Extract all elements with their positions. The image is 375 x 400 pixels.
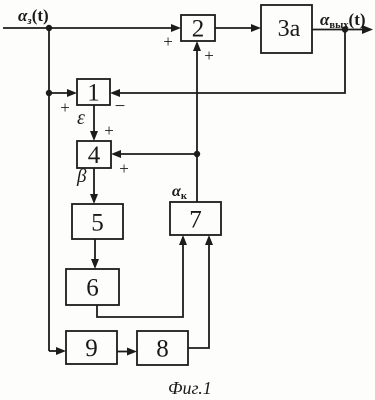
svg-text:1: 1 [87,80,100,107]
wire: block 4 output down to block 5 [90,168,98,204]
wire: into block 1 left [49,89,77,97]
svg-text:7: 7 [189,207,202,234]
svg-text:ε: ε [77,107,85,129]
svg-text:β: β [76,166,87,187]
svg-text:3а: 3а [278,16,301,42]
block 5 [72,204,123,239]
wire: branch into block 9 [49,347,66,355]
block 9 [66,331,117,364]
wire: block 3a output to right edge [312,25,373,34]
node: junction dot on block 7 line [194,151,200,157]
wire: block 7 output up to block 2 bottom [193,41,201,202]
wire: block 6 output loop up into block 7 bottom left [97,235,187,317]
block 1 [77,79,110,105]
block 8 [137,331,188,365]
wire: main input line to block 2 [3,24,181,32]
wire: feedback from output node into block 1 right [110,30,345,98]
svg-text:−: − [115,96,126,117]
svg-text:αвых(t): αвых(t) [320,10,366,31]
svg-text:+: + [60,98,70,117]
wire: block 5 output down to block 6 [91,239,99,269]
svg-text:αз(t): αз(t) [18,6,49,27]
svg-text:5: 5 [91,210,104,237]
block 7 [170,202,221,235]
wire: block 9 output to block 8 [117,348,137,356]
svg-text:4: 4 [88,142,101,169]
svg-text:Фиг.1: Фиг.1 [168,378,212,398]
svg-text:2: 2 [192,16,205,43]
node: output junction dot [342,26,348,32]
wire: block 8 output loop up into block 7 bottom right [188,235,213,348]
svg-text:+: + [104,121,114,140]
svg-text:αк: αк [172,183,188,202]
wire: branch from vertical line into block 4 right [111,150,197,158]
wire: block 2 output to block 3a [215,24,261,32]
svg-text:+: + [119,159,129,178]
node: junction dot at block 1 input [46,90,52,96]
svg-text:8: 8 [156,336,169,363]
block 6 [66,269,119,305]
block 2 [181,15,215,41]
svg-text:+: + [204,46,214,65]
svg-text:9: 9 [85,335,98,362]
svg-text:6: 6 [86,275,99,302]
wire: left vertical feedforward line [48,28,50,351]
block 3a [261,5,312,53]
svg-text:+: + [163,32,173,51]
node: input junction dot [46,25,52,31]
block 4 [77,141,111,168]
wire: block 1 output down to block 4 [90,105,98,141]
